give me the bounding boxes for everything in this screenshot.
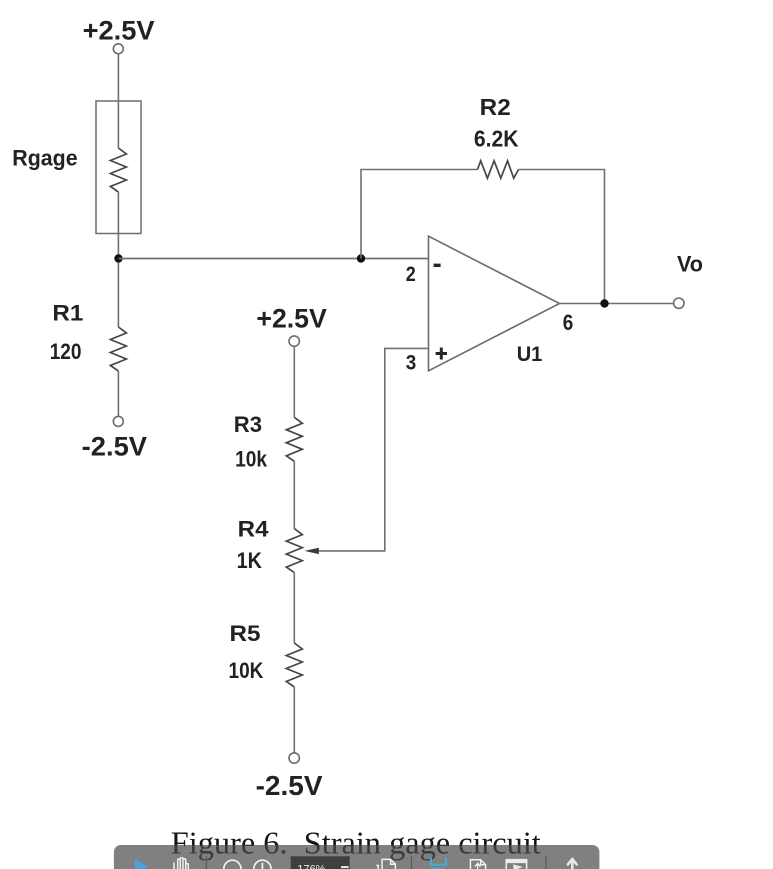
toolbar page view icon bbox=[470, 860, 485, 869]
svg-text:-2.5V: -2.5V bbox=[256, 770, 324, 801]
svg-text:1K: 1K bbox=[237, 548, 263, 573]
svg-text:3: 3 bbox=[406, 351, 417, 374]
wire node A to op-amp pin 2 bbox=[119, 258, 429, 260]
svg-text:Vo: Vo bbox=[677, 251, 703, 276]
wire R4 to R5 bbox=[293, 573, 295, 643]
toolbar play cursor icon bbox=[135, 859, 148, 869]
op-amp U1 bbox=[429, 236, 560, 371]
toolbar selection marquee icon (blue) bbox=[431, 858, 446, 869]
wire from +2.5V terminal into Rgage box bbox=[117, 54, 119, 148]
toolbar zoom level box bbox=[291, 856, 350, 869]
wire R1 to -2.5V terminal bbox=[117, 371, 119, 416]
terminal +2.5V (open circle) bbox=[113, 44, 123, 54]
svg-text:R2: R2 bbox=[480, 94, 511, 120]
toolbar separator 2 bbox=[411, 856, 413, 869]
terminal +2.5V divider (open circle) bbox=[289, 336, 299, 346]
toolbar zoom-out circle icon bbox=[224, 860, 241, 869]
svg-text:+2.5V: +2.5V bbox=[256, 304, 326, 334]
svg-text:-2.5V: -2.5V bbox=[82, 432, 147, 462]
wire op-amp output to Vo bbox=[560, 303, 674, 305]
resistor R3 bbox=[286, 417, 302, 461]
resistor R2 bbox=[478, 161, 519, 178]
resistor R5 bbox=[286, 643, 302, 687]
op-amp non-inverting input plus sign bbox=[436, 348, 447, 360]
terminal -2.5V (open circle, left) bbox=[113, 416, 123, 426]
wire Rgage to node A bbox=[117, 192, 119, 259]
junction dot feedback tap bbox=[357, 254, 365, 262]
potentiometer R4 bbox=[286, 529, 302, 573]
svg-text:R3: R3 bbox=[234, 412, 262, 437]
svg-text:U1: U1 bbox=[517, 343, 543, 366]
wiper arrowhead on R4 bbox=[305, 548, 319, 554]
wire R3 to R4 bbox=[293, 461, 295, 528]
toolbar separator 1 bbox=[205, 856, 207, 869]
wire feedback left riser bbox=[361, 170, 478, 259]
toolbar hand tool icon bbox=[174, 858, 188, 869]
toolbar presentation icon bbox=[506, 860, 526, 869]
toolbar separator 3 bbox=[545, 856, 547, 869]
toolbar (pdf viewer overlay) bbox=[114, 845, 600, 869]
svg-text:Rgage: Rgage bbox=[12, 145, 77, 170]
wire feedback right drop to output bbox=[519, 170, 605, 304]
svg-text:10k: 10k bbox=[235, 447, 267, 472]
svg-text:R1: R1 bbox=[52, 301, 83, 326]
terminal -2.5V divider (open circle) bbox=[289, 753, 299, 763]
node A junction dot bbox=[114, 254, 122, 262]
toolbar zoom dropdown dash bbox=[341, 866, 349, 868]
wire R5 to -2.5V terminal bbox=[293, 687, 295, 753]
svg-text:10K: 10K bbox=[229, 658, 265, 683]
svg-text:R4: R4 bbox=[238, 516, 269, 541]
svg-text:+2.5V: +2.5V bbox=[83, 15, 155, 45]
wire node A to R1 bbox=[117, 263, 119, 328]
output junction dot bbox=[600, 299, 608, 307]
toolbar copy pages icon bbox=[376, 859, 395, 869]
resistor Rgage (boxed strain gage) bbox=[96, 101, 141, 234]
resistor R1 bbox=[110, 327, 126, 371]
svg-text:120: 120 bbox=[50, 339, 82, 364]
svg-text:6: 6 bbox=[563, 310, 574, 335]
toolbar upload arrow icon bbox=[568, 859, 577, 869]
toolbar zoom-in circle icon bbox=[254, 860, 271, 869]
wire op-amp pin 3 to R4 wiper bbox=[319, 348, 429, 551]
svg-text:2: 2 bbox=[406, 263, 416, 286]
terminal Vo (open circle) bbox=[674, 298, 684, 308]
wire +2.5V to R3 bbox=[293, 346, 295, 417]
svg-text:R5: R5 bbox=[230, 621, 261, 646]
op-amp inverting input minus sign bbox=[434, 264, 441, 267]
svg-text:6.2K: 6.2K bbox=[474, 125, 519, 151]
svg-text:176%: 176% bbox=[297, 863, 325, 869]
